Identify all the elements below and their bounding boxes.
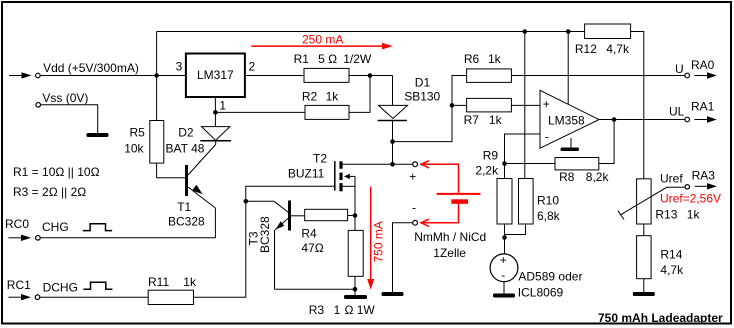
wire R11 to T2 gate bbox=[194, 186, 335, 297]
resistor R5 bbox=[150, 76, 164, 164]
svg-text:1k: 1k bbox=[488, 52, 502, 66]
resistor R2 bbox=[305, 105, 349, 119]
transistor T1 bbox=[157, 145, 216, 239]
wire Vss to ground bbox=[41, 105, 98, 133]
svg-text:6,8k: 6,8k bbox=[537, 209, 561, 223]
svg-text:D2: D2 bbox=[178, 126, 194, 140]
svg-text:8,2k: 8,2k bbox=[586, 170, 610, 184]
resistor R4 bbox=[305, 209, 348, 220]
ground Vss bbox=[87, 133, 109, 137]
wire Vdd to LM317 pin3 bbox=[40, 75, 186, 77]
resistor R14 bbox=[637, 236, 652, 292]
svg-text:1W: 1W bbox=[357, 303, 376, 317]
svg-text:NmMh / NiCd: NmMh / NiCd bbox=[414, 230, 486, 244]
battery cell lead plus bbox=[421, 161, 459, 193]
svg-text:3: 3 bbox=[176, 60, 183, 74]
svg-text:R11: R11 bbox=[148, 275, 169, 289]
svg-text:T1: T1 bbox=[177, 200, 191, 214]
svg-text:U: U bbox=[675, 62, 684, 76]
svg-text:-: - bbox=[412, 201, 416, 215]
svg-text:LM358: LM358 bbox=[548, 113, 585, 127]
wire LM317 pin2 to R1 bbox=[245, 75, 304, 77]
svg-text:-: - bbox=[501, 268, 505, 282]
svg-text:750 mA: 750 mA bbox=[372, 221, 386, 262]
resistor R11 bbox=[148, 290, 193, 304]
wire opamp output to UL terminal bbox=[599, 119, 685, 121]
svg-text:Vss (0V): Vss (0V) bbox=[42, 91, 88, 105]
node battery plus junction bbox=[390, 162, 395, 167]
resistor R10 bbox=[505, 179, 534, 235]
svg-text:R6: R6 bbox=[464, 52, 480, 66]
svg-text:10k: 10k bbox=[124, 142, 144, 156]
terminal DCHG bbox=[35, 295, 40, 300]
svg-text:1k: 1k bbox=[687, 207, 701, 221]
svg-text:R12: R12 bbox=[575, 42, 597, 56]
terminal UL bbox=[685, 117, 690, 122]
wire CHG to T1 collector bbox=[40, 237, 215, 239]
svg-text:SB130: SB130 bbox=[404, 90, 440, 104]
svg-text:1: 1 bbox=[334, 303, 341, 317]
svg-text:R1: R1 bbox=[294, 52, 310, 66]
wire to battery plus terminal bbox=[393, 163, 413, 165]
node R3 bottom junction bbox=[353, 287, 358, 292]
svg-text:RA1: RA1 bbox=[691, 100, 715, 114]
svg-text:T2: T2 bbox=[313, 152, 327, 166]
svg-text:5 Ω: 5 Ω bbox=[318, 52, 337, 66]
node R1-R2 junction bbox=[368, 73, 373, 78]
wire battery minus to ground bbox=[393, 223, 413, 292]
svg-text:R1 = 10Ω || 10Ω: R1 = 10Ω || 10Ω bbox=[13, 165, 100, 179]
terminal Vdd bbox=[36, 73, 41, 78]
pulse symbol DCHG bbox=[83, 282, 112, 289]
ground AD589 bbox=[493, 294, 515, 298]
svg-text:RC0: RC0 bbox=[5, 217, 29, 231]
current arrow 250 mA bbox=[251, 43, 392, 50]
resistor R13 trimmer bbox=[637, 179, 652, 224]
svg-text:BAT 48: BAT 48 bbox=[166, 142, 205, 156]
battery cell lead minus bbox=[421, 204, 459, 227]
svg-text:2,2k: 2,2k bbox=[475, 163, 499, 177]
input arrow RC0 bbox=[8, 235, 31, 241]
resistor R6 bbox=[467, 69, 512, 83]
wire R7 to opamp plus input bbox=[511, 104, 540, 106]
svg-text:CHG: CHG bbox=[42, 220, 69, 234]
resistor R7 bbox=[467, 98, 512, 112]
wire R1 to D1 bbox=[349, 75, 393, 77]
wire pin1 to R2 bbox=[215, 111, 305, 113]
svg-text:1k: 1k bbox=[326, 89, 340, 103]
svg-text:BC328: BC328 bbox=[168, 215, 205, 229]
svg-text:RA3: RA3 bbox=[692, 168, 716, 182]
svg-text:250 mA: 250 mA bbox=[302, 33, 343, 47]
node top rail to opamp V+ branch 1 bbox=[523, 29, 528, 34]
diode D2 bbox=[200, 127, 231, 145]
svg-text:ICL8069: ICL8069 bbox=[518, 285, 564, 299]
svg-text:RC1: RC1 bbox=[7, 278, 31, 292]
svg-text:R3: R3 bbox=[309, 303, 325, 317]
wire DCHG to R11 bbox=[40, 296, 148, 298]
node R7 branch bbox=[450, 103, 455, 108]
resistor R12 bbox=[585, 24, 631, 39]
svg-text:R13: R13 bbox=[655, 207, 677, 221]
node minus input junction bbox=[502, 161, 507, 166]
svg-text:R7: R7 bbox=[464, 113, 480, 127]
svg-text:Vdd (+5V/300mA): Vdd (+5V/300mA) bbox=[43, 61, 139, 75]
svg-text:1Zelle: 1Zelle bbox=[433, 246, 466, 260]
svg-text:Uref: Uref bbox=[660, 171, 683, 185]
svg-text:DCHG: DCHG bbox=[43, 280, 78, 294]
svg-text:D1: D1 bbox=[415, 75, 431, 89]
wire V+ rail to R10 bbox=[524, 32, 526, 179]
node T3 base branch bbox=[244, 199, 249, 204]
node pin1 junction bbox=[213, 110, 218, 115]
svg-text:R2: R2 bbox=[302, 89, 318, 103]
ground R3 bbox=[344, 295, 367, 299]
voltage regulator LM317 bbox=[186, 54, 245, 98]
wire R13 to R14 bbox=[643, 224, 645, 236]
ground opamp bbox=[561, 138, 580, 151]
ground R14 bbox=[633, 292, 655, 296]
voltage reference AD589 bbox=[490, 254, 518, 294]
resistor R3 bbox=[348, 216, 363, 296]
node D1 cathode junction bbox=[390, 139, 395, 144]
svg-text:4,7k: 4,7k bbox=[606, 42, 630, 56]
wire minus input bbox=[505, 134, 541, 164]
output arrow RA3 bbox=[695, 183, 717, 189]
wire R4 to T2 source bbox=[348, 215, 355, 217]
resistor R9 bbox=[497, 164, 512, 254]
svg-text:+: + bbox=[409, 170, 416, 184]
node top rail to opamp V+ branch 2 bbox=[566, 29, 571, 34]
svg-text:4,7k: 4,7k bbox=[660, 263, 684, 277]
wire D1 junction to R6/R7 bbox=[393, 76, 467, 142]
wire R6 to U terminal bbox=[511, 75, 685, 77]
svg-text:R8: R8 bbox=[559, 170, 575, 184]
input arrow Vdd bbox=[9, 72, 32, 78]
trimmer wiper arrow to Uref bbox=[618, 187, 685, 219]
wire R12 to R13 divider bbox=[631, 32, 644, 179]
node Vdd junction bbox=[154, 73, 159, 78]
output arrow RA1 bbox=[694, 116, 717, 122]
svg-text:AD589 oder: AD589 oder bbox=[518, 269, 582, 283]
diode D1 bbox=[378, 76, 408, 165]
op-amp U1 LM358 bbox=[540, 90, 599, 148]
svg-text:1k: 1k bbox=[489, 113, 503, 127]
terminal Uref bbox=[685, 185, 689, 189]
svg-text:BC328: BC328 bbox=[258, 216, 272, 253]
svg-text:Ω: Ω bbox=[345, 303, 354, 317]
node opamp output junction bbox=[612, 117, 617, 122]
battery cell plates bbox=[437, 194, 481, 204]
terminal battery plus bbox=[413, 162, 418, 167]
wire R7 branch bbox=[452, 104, 467, 106]
input arrow RC1 bbox=[8, 294, 31, 300]
svg-text:2: 2 bbox=[249, 60, 256, 74]
svg-text:R10: R10 bbox=[537, 194, 559, 208]
resistor R8 bbox=[555, 158, 599, 170]
wire Vdd junction up to top rail bbox=[156, 32, 158, 76]
svg-text:R3 = 2Ω || 2Ω: R3 = 2Ω || 2Ω bbox=[13, 185, 86, 199]
ground battery minus bbox=[382, 292, 404, 296]
terminal CHG bbox=[36, 236, 41, 241]
wire top rail bbox=[157, 31, 585, 33]
red current arrows and battery bbox=[251, 43, 480, 290]
transistor T3 bbox=[246, 201, 305, 290]
terminal U bbox=[685, 73, 690, 78]
svg-text:R4: R4 bbox=[301, 227, 317, 241]
terminal battery minus bbox=[413, 220, 418, 225]
svg-text:Uref=2,56V: Uref=2,56V bbox=[660, 191, 721, 205]
wire V+ rail to opamp bbox=[567, 32, 569, 104]
svg-text:R14: R14 bbox=[660, 248, 682, 262]
wire R2 up to R1 output bbox=[349, 76, 370, 113]
svg-text:+: + bbox=[500, 253, 507, 267]
wire R8 to minus input node bbox=[505, 163, 556, 165]
current arrow 750 mA bbox=[367, 187, 374, 290]
node R9/R10 bottom junction bbox=[502, 235, 507, 240]
svg-text:BUZ11: BUZ11 bbox=[288, 167, 325, 181]
wire T3 emitter to R3 bottom bbox=[275, 288, 356, 290]
mosfet T2 bbox=[335, 161, 393, 216]
svg-text:-: - bbox=[545, 130, 549, 144]
svg-text:UL: UL bbox=[669, 104, 685, 118]
node R4/T2/R3 junction bbox=[353, 213, 358, 218]
svg-text:750 mAh Ladeadapter: 750 mAh Ladeadapter bbox=[598, 311, 723, 325]
wire opamp output to R8 bbox=[599, 120, 614, 164]
svg-text:1/2W: 1/2W bbox=[343, 52, 372, 66]
svg-text:R9: R9 bbox=[483, 149, 499, 163]
svg-text:1: 1 bbox=[219, 98, 226, 112]
svg-text:+: + bbox=[543, 97, 550, 111]
resistor R1 bbox=[304, 68, 349, 82]
svg-text:LM317: LM317 bbox=[197, 68, 234, 82]
svg-text:R5: R5 bbox=[130, 126, 146, 140]
input arrow Vss bbox=[36, 103, 41, 108]
svg-text:1k: 1k bbox=[183, 275, 197, 289]
wire LM317 pin1 down bbox=[214, 97, 216, 126]
svg-text:RA0: RA0 bbox=[691, 58, 715, 72]
svg-text:47Ω: 47Ω bbox=[301, 241, 323, 255]
output arrow RA0 bbox=[694, 72, 717, 78]
pulse symbol CHG bbox=[83, 224, 112, 231]
